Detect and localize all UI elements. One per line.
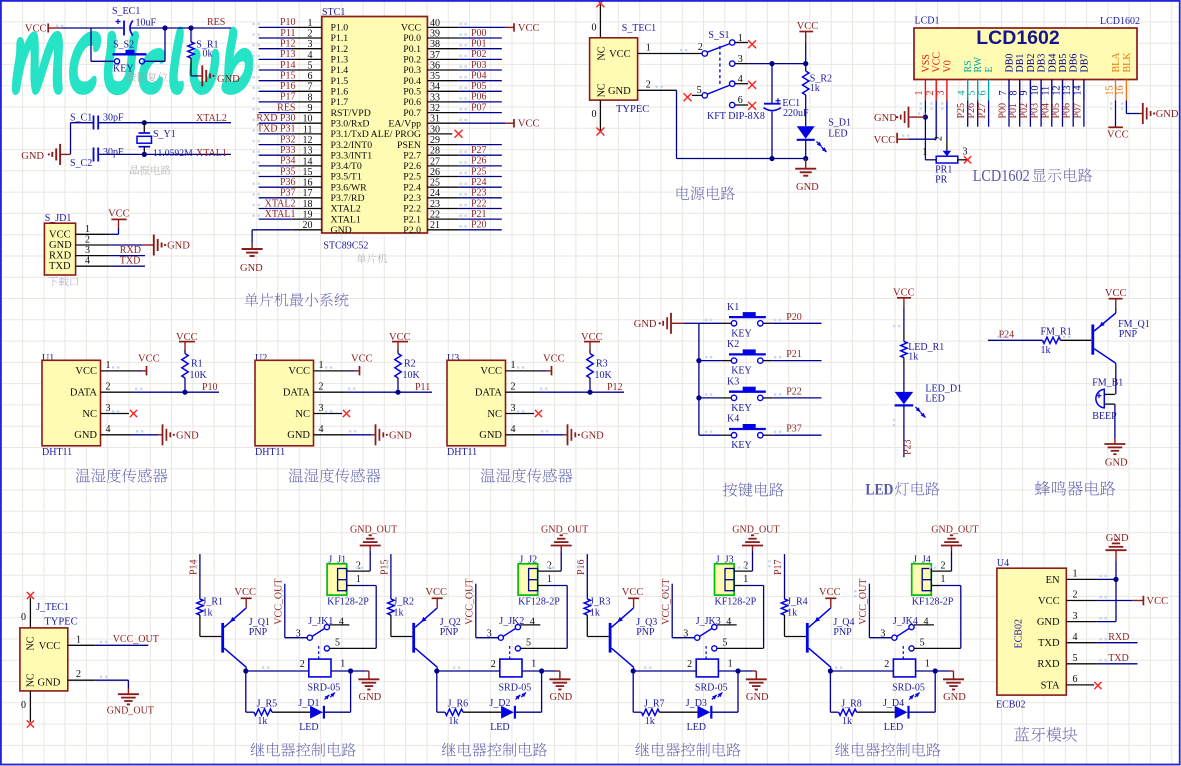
svg-text:XTAL2: XTAL2 <box>196 113 227 124</box>
net label P27 <box>977 103 988 119</box>
svg-text:RXD: RXD <box>1108 632 1129 643</box>
net label P02 <box>471 49 487 60</box>
wire <box>259 37 292 39</box>
svg-text:GND: GND <box>74 430 97 441</box>
pin 4 <box>329 624 349 626</box>
ground (power circuit) <box>795 159 819 194</box>
junction <box>696 358 701 401</box>
caption 继电器控制电路 <box>635 743 740 757</box>
svg-text:1: 1 <box>1073 569 1078 580</box>
svg-text:P23: P23 <box>902 439 913 455</box>
svg-text:GND_OUT: GND_OUT <box>732 524 779 535</box>
pin 4 RS <box>957 60 975 100</box>
svg-text:3: 3 <box>511 403 516 414</box>
caption LED灯电路 <box>865 482 939 499</box>
net label P05 <box>1051 103 1062 119</box>
svg-text:P33: P33 <box>280 145 296 156</box>
wire <box>711 671 738 712</box>
svg-text:VCC: VCC <box>401 23 421 34</box>
pin 2 <box>638 79 677 90</box>
no-ERC mark <box>748 81 756 89</box>
wire <box>459 69 502 71</box>
svg-text:GND: GND <box>746 692 769 703</box>
pin 3 GND <box>1037 611 1097 628</box>
wire <box>699 322 722 324</box>
svg-text:S_D1: S_D1 <box>828 118 851 129</box>
svg-text:ALE/ PROG: ALE/ PROG <box>371 129 421 140</box>
svg-text:P32: P32 <box>280 134 296 145</box>
svg-text:1: 1 <box>340 658 345 669</box>
power port VCC (relay 1) <box>234 587 256 608</box>
ground (LCD VSS) <box>874 107 925 128</box>
no-ERC mark <box>684 93 692 101</box>
pin 18 <box>291 199 322 210</box>
wire <box>459 58 502 60</box>
svg-text:VCC: VCC <box>25 23 47 34</box>
wire <box>1029 100 1031 126</box>
svg-text:VCC: VCC <box>480 366 502 377</box>
wire <box>324 671 351 712</box>
pin 1 <box>347 574 361 586</box>
svg-text:1k: 1k <box>394 607 404 618</box>
wire <box>390 554 392 599</box>
svg-text:P37: P37 <box>280 188 296 199</box>
svg-text:GND: GND <box>21 151 44 162</box>
net label XTAL1 <box>265 209 296 220</box>
svg-text:RXD: RXD <box>1037 659 1060 670</box>
capacitor S_EC1 10uF <box>112 6 157 36</box>
svg-text:P02: P02 <box>471 49 487 60</box>
ground (relay 1) <box>358 671 381 703</box>
svg-text:P27: P27 <box>977 103 988 119</box>
wire <box>830 659 893 671</box>
switch S_S2 KEY <box>113 40 147 75</box>
svg-text:TXD P31: TXD P31 <box>257 124 296 135</box>
power port VCC (LCD) <box>874 133 909 146</box>
net label XTAL2 <box>196 113 227 124</box>
wire <box>259 154 292 156</box>
pin 16 <box>291 178 322 189</box>
svg-text:LED: LED <box>884 722 903 733</box>
ground (reset) <box>198 65 241 86</box>
svg-text:VCC: VCC <box>351 354 373 365</box>
pin 2 <box>291 28 322 39</box>
pin 37 <box>427 50 458 61</box>
svg-text:12: 12 <box>303 135 313 146</box>
svg-text:GND: GND <box>38 678 61 689</box>
caption 温湿度传感器 <box>289 468 381 482</box>
net label P02 <box>1019 103 1030 119</box>
wire <box>672 584 694 638</box>
wire <box>459 144 502 146</box>
junction <box>348 668 353 673</box>
wire <box>589 378 591 392</box>
svg-text:7: 7 <box>998 91 1009 96</box>
svg-text:4: 4 <box>106 424 111 435</box>
pin 38 <box>427 39 458 50</box>
svg-text:VCC: VCC <box>49 229 71 240</box>
svg-text:P0.5: P0.5 <box>403 87 421 98</box>
pin 6 STA <box>1041 674 1095 691</box>
connector J_J1 KF128-2P <box>327 555 369 608</box>
pin 2 <box>68 669 95 680</box>
svg-text:2: 2 <box>511 382 516 393</box>
capacitor S_C1 30pF <box>70 113 124 130</box>
net label P03 <box>471 60 487 71</box>
wire DATA <box>537 391 624 393</box>
net label P22 <box>786 386 802 397</box>
svg-text:TXD: TXD <box>49 261 71 272</box>
svg-text:P3.4/T0: P3.4/T0 <box>331 161 362 172</box>
svg-text:BLA: BLA <box>1111 52 1122 73</box>
svg-text:P0.3: P0.3 <box>403 65 421 76</box>
IC U1 DHT11 (sensor) <box>42 353 101 458</box>
no-ERC mark <box>455 130 463 138</box>
pin 26 <box>427 167 458 178</box>
switch K1 KEY <box>722 302 773 340</box>
svg-text:9: 9 <box>1019 91 1030 96</box>
wire <box>547 586 567 649</box>
wire <box>145 28 165 61</box>
svg-text:GND: GND <box>634 319 657 330</box>
wire <box>391 615 412 637</box>
svg-text:DATA: DATA <box>70 388 98 399</box>
wire <box>743 586 763 649</box>
net label VCC_OUT <box>113 634 159 645</box>
IC U4 ECB02 (bluetooth) <box>996 558 1066 711</box>
svg-text:7: 7 <box>308 82 313 93</box>
svg-text:2: 2 <box>941 560 946 571</box>
wire <box>459 165 502 167</box>
pin 15 BLA <box>1104 52 1122 101</box>
net label P12 <box>607 382 623 393</box>
svg-text:VCC: VCC <box>425 587 447 598</box>
no-ERC mark <box>27 592 34 599</box>
power port VCC (pin31) <box>506 119 540 130</box>
pin 4 <box>291 50 322 61</box>
svg-text:STA: STA <box>1041 680 1060 691</box>
switch K4 KEY <box>722 414 773 452</box>
wire <box>752 550 754 571</box>
net label P03 <box>1030 103 1041 119</box>
pin 3 <box>506 403 535 414</box>
pin 1 <box>101 360 138 371</box>
ground (relay 3) <box>746 671 769 703</box>
wire <box>350 370 355 372</box>
wire <box>259 80 292 82</box>
svg-text:P07: P07 <box>471 102 487 113</box>
svg-text:XTAL1: XTAL1 <box>265 209 296 220</box>
wire <box>805 140 807 159</box>
wire <box>560 550 562 571</box>
svg-text:RES: RES <box>277 102 295 113</box>
svg-text:13: 13 <box>1062 86 1073 96</box>
svg-text:P20: P20 <box>786 312 802 323</box>
svg-text:PNP: PNP <box>833 627 852 638</box>
pin 36 <box>427 60 458 71</box>
svg-text:P3.6/WR: P3.6/WR <box>331 182 368 193</box>
net label VCC_OUT (relay 4) <box>858 579 869 625</box>
wire <box>935 100 937 139</box>
pin 2 <box>101 382 133 393</box>
svg-text:KF128-2P: KF128-2P <box>327 596 369 607</box>
net label P10 <box>280 17 296 28</box>
wire <box>633 671 641 712</box>
svg-text:TXD: TXD <box>1038 638 1060 649</box>
svg-text:P24: P24 <box>999 330 1015 341</box>
svg-text:J_D1: J_D1 <box>298 698 319 709</box>
svg-text:P22: P22 <box>786 386 802 397</box>
svg-text:19: 19 <box>303 210 313 221</box>
wire <box>1061 339 1092 341</box>
pin names <box>331 23 422 236</box>
ground (U1) <box>158 424 199 445</box>
svg-text:4: 4 <box>530 617 535 628</box>
wire <box>459 197 502 199</box>
net label P17 <box>773 559 784 575</box>
ground (relay 4) <box>943 671 966 703</box>
label 下载口 <box>48 277 78 287</box>
wire <box>397 378 399 392</box>
switch K3 KEY <box>722 376 773 414</box>
svg-text:DHT11: DHT11 <box>447 447 477 458</box>
wire XTAL1 <box>98 153 231 155</box>
pin 2 <box>538 560 562 571</box>
no-ERC mark <box>964 156 971 163</box>
svg-text:LED: LED <box>865 482 893 499</box>
svg-text:35: 35 <box>430 71 440 82</box>
svg-text:KEY: KEY <box>113 64 134 75</box>
junction <box>142 152 147 157</box>
pin 27 <box>427 156 458 167</box>
LED J_D4 <box>883 698 909 733</box>
resistor S_R2 1k <box>803 71 833 95</box>
svg-text:XTAL2: XTAL2 <box>331 204 361 215</box>
svg-text:FM_B1: FM_B1 <box>1092 378 1123 389</box>
resistor LED_R1 1k <box>901 342 945 363</box>
svg-text:DB5: DB5 <box>1058 54 1069 73</box>
wire <box>1096 579 1116 621</box>
wire <box>21 598 30 628</box>
pin stub <box>958 159 967 161</box>
potentiometer PR1 PR <box>922 136 967 186</box>
svg-text:P15: P15 <box>280 71 296 82</box>
ground (U2) <box>371 424 412 445</box>
svg-text:14: 14 <box>303 156 313 167</box>
wire <box>699 360 722 362</box>
svg-text:1k: 1k <box>842 716 852 727</box>
wire (key bus) <box>698 323 700 435</box>
wire <box>565 647 568 649</box>
ground GND_OUT (relay 4) <box>931 524 978 550</box>
LED J_D1 <box>298 698 324 733</box>
pin 5 <box>291 60 322 71</box>
wire <box>522 658 556 671</box>
svg-text:J_R3: J_R3 <box>590 597 611 608</box>
net label P05 <box>471 81 487 92</box>
pin 19 <box>291 210 322 221</box>
wire <box>772 360 821 362</box>
svg-text:NC: NC <box>82 409 97 420</box>
wire <box>459 154 502 156</box>
svg-text:3: 3 <box>683 628 688 639</box>
wire RXD <box>1096 642 1137 644</box>
wire <box>785 615 806 637</box>
svg-text:1: 1 <box>743 574 748 585</box>
wire <box>60 27 123 29</box>
net label P04 <box>1040 103 1051 119</box>
resistor S_R1 10k <box>188 28 219 60</box>
relay coil SRD-05 (J_JK4) <box>892 659 925 700</box>
svg-text:P13: P13 <box>280 49 296 60</box>
net label P01 <box>471 39 487 50</box>
wire DATA <box>345 391 432 393</box>
svg-text:KEY: KEY <box>731 440 752 451</box>
svg-text:DATA: DATA <box>283 388 311 399</box>
no-ERC mark <box>748 102 756 110</box>
svg-text:VCC_OUT: VCC_OUT <box>274 579 285 625</box>
svg-text:2: 2 <box>308 28 313 39</box>
wire <box>459 80 502 82</box>
junction <box>769 156 808 161</box>
svg-text:2: 2 <box>85 234 90 245</box>
pin 32 <box>427 103 458 114</box>
wire <box>259 48 292 50</box>
svg-text:DB2: DB2 <box>1026 54 1037 73</box>
pin 2 <box>314 382 346 393</box>
caption 蓝牙模块 <box>1015 727 1078 742</box>
resistor J_R1 1k <box>197 597 223 619</box>
svg-text:P3.5/T1: P3.5/T1 <box>331 172 362 183</box>
svg-text:RXD: RXD <box>49 251 72 262</box>
svg-text:V0: V0 <box>942 60 953 72</box>
svg-text:P26: P26 <box>471 156 487 167</box>
svg-text:3: 3 <box>487 628 492 639</box>
svg-text:21: 21 <box>430 220 440 231</box>
svg-text:VCC: VCC <box>75 366 97 377</box>
compile mask dots <box>100 560 1107 678</box>
wire <box>1096 578 1116 580</box>
svg-text:P27: P27 <box>471 145 487 156</box>
svg-text:GND: GND <box>240 263 263 274</box>
svg-text:LED: LED <box>490 722 509 733</box>
svg-text:P06: P06 <box>1062 103 1073 119</box>
pin 28 <box>427 146 458 157</box>
no-ERC mark <box>1094 682 1101 689</box>
svg-text:P12: P12 <box>607 382 623 393</box>
svg-text:J_D3: J_D3 <box>686 698 707 709</box>
svg-text:J_D4: J_D4 <box>883 698 904 709</box>
svg-text:2: 2 <box>884 659 889 670</box>
pin 2 VCC <box>925 52 943 101</box>
svg-text:2: 2 <box>76 669 81 680</box>
junction <box>933 668 938 673</box>
pin 3 <box>76 245 110 256</box>
relay coil SRD-05 (J_JK3) <box>695 659 728 700</box>
ground (MCU) <box>240 243 263 274</box>
svg-text:5: 5 <box>697 85 702 96</box>
wire <box>459 208 502 210</box>
svg-text:28: 28 <box>430 146 440 157</box>
svg-text:15: 15 <box>1104 86 1115 96</box>
svg-text:J_R4: J_R4 <box>787 597 808 608</box>
pin 1 <box>638 43 705 54</box>
wire <box>659 711 697 713</box>
pin 17 <box>291 188 322 199</box>
svg-text:P05: P05 <box>1051 103 1062 119</box>
svg-text:VCC: VCC <box>234 587 256 598</box>
svg-text:P3.7/RD: P3.7/RD <box>331 193 365 204</box>
svg-text:P0.7: P0.7 <box>403 108 421 119</box>
wire VCC_OUT <box>95 644 148 646</box>
resistor J_R5 1k <box>254 699 277 727</box>
svg-text:J_R8: J_R8 <box>841 699 862 710</box>
svg-text:33: 33 <box>430 92 440 103</box>
pin 1 VSS <box>914 54 932 100</box>
svg-text:16: 16 <box>303 178 313 189</box>
pin 5 <box>330 647 376 649</box>
wire <box>259 69 292 71</box>
svg-text:30: 30 <box>430 124 440 135</box>
svg-text:3: 3 <box>319 403 324 414</box>
svg-text:GND: GND <box>287 430 310 441</box>
svg-text:FM_R1: FM_R1 <box>1041 327 1072 338</box>
connector J_J3 KF128-2P <box>715 555 757 608</box>
wire <box>259 186 292 188</box>
pin 2 VCC <box>1038 590 1096 607</box>
wire <box>331 658 365 671</box>
svg-text:J_D2: J_D2 <box>489 698 510 709</box>
net label P21 <box>471 209 487 220</box>
wire <box>586 554 588 599</box>
pin 31 <box>427 114 458 125</box>
svg-text:P0.0: P0.0 <box>403 33 421 44</box>
wire <box>909 671 936 712</box>
wire <box>805 43 807 72</box>
ground (relay 2) <box>549 671 572 703</box>
svg-text:24: 24 <box>430 188 440 199</box>
pin stub <box>735 42 748 44</box>
svg-text:17: 17 <box>303 188 313 199</box>
svg-text:PNP: PNP <box>1119 329 1138 340</box>
junction <box>395 390 400 395</box>
svg-text:14: 14 <box>1073 86 1084 96</box>
svg-text:1: 1 <box>76 634 81 645</box>
svg-text:8: 8 <box>1009 91 1020 96</box>
svg-text:P3.1/TxD: P3.1/TxD <box>331 129 369 140</box>
power port VCC (U3 pin1) <box>543 354 565 376</box>
svg-text:1: 1 <box>914 91 925 96</box>
pin stub <box>692 94 702 96</box>
wire DATA <box>132 391 219 393</box>
wire <box>1115 308 1117 313</box>
pin 4 <box>914 624 934 626</box>
wire <box>259 101 292 103</box>
wire <box>1072 100 1074 126</box>
svg-text:6: 6 <box>1073 674 1078 685</box>
ground (crystal) <box>21 144 70 165</box>
svg-text:VCC: VCC <box>138 354 160 365</box>
resistor J_R3 1k <box>584 597 610 619</box>
svg-text:36: 36 <box>430 60 440 71</box>
svg-text:PNP: PNP <box>636 627 655 638</box>
pin 7 DB0 <box>998 54 1016 101</box>
svg-text:2: 2 <box>743 560 748 571</box>
wire <box>184 378 186 392</box>
resistor J_R4 1k <box>781 597 807 619</box>
svg-text:PR: PR <box>935 175 948 186</box>
caption LCD1602显示电路 <box>973 166 1092 185</box>
